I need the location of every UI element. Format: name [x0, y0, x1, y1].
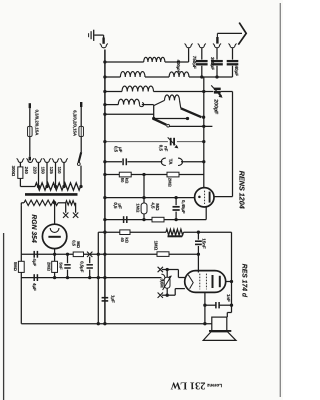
label 0,6M: [159, 279, 164, 289]
junction trim railA: [202, 140, 205, 143]
tap hook 300: [17, 158, 25, 167]
wire screen row: [21, 253, 198, 255]
svg-text:1MΩ: 1MΩ: [154, 241, 159, 251]
junction res bus: [103, 173, 106, 176]
wire row2: [105, 76, 121, 78]
socket hook A2: [198, 44, 206, 48]
label RENS 1204: [238, 171, 247, 209]
junction TA bus: [103, 160, 106, 163]
hum resistor: [66, 201, 76, 205]
tap hook 125: [52, 158, 60, 186]
wire 1nF row: [205, 304, 232, 306]
wire grid row: [105, 197, 195, 199]
socket hook A4: [228, 44, 236, 48]
coil L4b lead left: [154, 100, 165, 105]
tube RGN anode leg: [54, 249, 56, 255]
svg-text:40: 40: [120, 237, 125, 242]
label 0,5M: [71, 240, 81, 248]
left rail top: [20, 205, 22, 261]
junction link left: [152, 117, 155, 120]
jack TA right: [178, 158, 183, 165]
junction anode bus: [103, 231, 106, 234]
junction cath bottom: [203, 322, 206, 325]
svg-text:1MΩ: 1MΩ: [136, 203, 141, 213]
tube1 cathode leg: [205, 207, 207, 220]
socket hook A3: [213, 44, 221, 48]
switch post: [153, 105, 155, 119]
svg-text:0,6M: 0,6M: [159, 279, 164, 289]
label RES 174d: [241, 264, 248, 298]
label 2M vert: [46, 262, 51, 272]
svg-text:125: 125: [49, 167, 54, 175]
junction row2 300pF: [215, 75, 218, 78]
wire fil top: [54, 203, 56, 225]
switch contact S2: [167, 124, 170, 127]
svg-text:240: 240: [24, 167, 29, 175]
svg-text:50: 50: [120, 178, 125, 183]
wire heater row: [21, 203, 65, 206]
junction grid cap: [174, 196, 177, 199]
capacitor 15nF: [195, 241, 202, 244]
svg-text:kΩ: kΩ: [124, 237, 129, 243]
label 400μH: [176, 60, 181, 73]
wire hook A2 down: [201, 48, 203, 59]
junction heater fil: [53, 201, 56, 204]
label 4,5M: [150, 202, 160, 211]
label 1M: [136, 203, 141, 213]
mains pin2: [80, 102, 82, 126]
capacitor 300pF: [211, 61, 223, 77]
junction bias rail98: [97, 276, 100, 279]
mains switch contact: [77, 163, 80, 166]
capacitor 0,5uF bias: [87, 257, 93, 278]
svg-text:4μF: 4μF: [32, 258, 37, 266]
wire hook A4 down: [232, 48, 234, 59]
resistor 2M box2: [167, 172, 179, 177]
svg-text:400μH: 400μH: [176, 60, 181, 73]
junction g2 5nF: [66, 253, 69, 256]
tap hook 150: [43, 158, 51, 186]
wire 1M to cath: [143, 214, 145, 220]
label 300: [11, 166, 16, 177]
wire TA row: [105, 161, 162, 163]
svg-text:0,45μF: 0,45μF: [181, 200, 186, 214]
resistor 50k box1: [119, 172, 131, 177]
svg-text:0,5: 0,5: [71, 240, 76, 246]
dropper zigzag: [35, 183, 81, 190]
wire railD to trafo: [227, 305, 231, 317]
svg-text:μF: μF: [117, 203, 122, 209]
resistor 5M box: [18, 261, 24, 272]
label 200pF: [213, 99, 219, 114]
svg-text:nF: nF: [164, 146, 169, 152]
wire row3: [105, 91, 122, 93]
junction cath bus: [103, 218, 106, 221]
coil L4a end curl: [140, 103, 144, 107]
label 150: [41, 167, 46, 175]
label TA: [167, 159, 173, 166]
wire switch to zigzag: [80, 166, 82, 187]
label 15nF: [202, 238, 207, 249]
tap hook 240: [26, 158, 34, 162]
svg-text:0,3/0,2/0,15A: 0,3/0,2/0,15A: [35, 110, 40, 136]
bias wire end curl: [161, 274, 165, 281]
wire row4 right: [142, 104, 154, 106]
fuse F1: [28, 126, 33, 136]
heater winding zigzag: [24, 200, 58, 205]
resistor 1M box g2: [157, 252, 169, 257]
svg-text:0,5: 0,5: [159, 145, 164, 152]
capacitor 5nF: [64, 254, 70, 277]
speaker cone: [203, 332, 236, 341]
coil L2a: [120, 72, 145, 77]
tube1 anode wire: [214, 196, 233, 198]
title 231LW: [170, 380, 205, 391]
speaker flange: [209, 330, 231, 332]
svg-text:5MΩ: 5MΩ: [13, 262, 18, 272]
wire cathode row: [105, 219, 206, 221]
label 4uF bottom: [32, 283, 37, 291]
svg-text:4μF: 4μF: [32, 283, 37, 291]
socket hook bus top: [100, 44, 108, 48]
title Lorenz: [206, 383, 222, 388]
left rail bottom: [20, 272, 22, 323]
junction bias bus: [103, 276, 106, 279]
resistor 300 box: [18, 167, 23, 179]
wire hook A3 down: [216, 48, 218, 59]
label 0,5uF cath: [113, 202, 123, 209]
jack TA left: [161, 158, 166, 165]
junction cath 1nF: [203, 304, 206, 307]
label 300pF: [210, 57, 215, 70]
junction row2 bus: [103, 75, 106, 78]
tube RENS1204: [195, 188, 214, 207]
svg-text:RGN 354: RGN 354: [30, 214, 37, 243]
junction bus bottom: [103, 322, 106, 325]
label 40k: [120, 237, 130, 243]
heater X mid: [87, 252, 92, 257]
coil L4b lead right: [180, 100, 181, 108]
heater X g top: [158, 267, 168, 272]
hum stub left: [63, 203, 68, 218]
junction Xbottom: [166, 294, 169, 297]
wire 1M drop: [143, 175, 145, 204]
plug pin 240: [29, 157, 31, 161]
label 125: [49, 167, 54, 175]
junction g2 rail98: [97, 253, 100, 256]
wire bus to switch: [105, 113, 154, 115]
border left: [3, 233, 5, 400]
trimmer 0,5nF: [168, 137, 179, 148]
wire Xtop to tube: [167, 270, 185, 278]
junction bus sw: [103, 113, 106, 116]
capacitor 0,5uF cath: [124, 216, 127, 223]
svg-text:2MΩ: 2MΩ: [46, 262, 51, 272]
svg-text:0,5μF: 0,5μF: [79, 261, 84, 273]
label 0,5uF TA: [114, 146, 124, 153]
capacitor 0,5uF TA: [123, 158, 126, 165]
coil L2b: [169, 72, 189, 77]
junction row3 bus: [103, 90, 106, 93]
label 5M: [13, 262, 18, 272]
capacitor 1uF: [102, 298, 109, 301]
label 2M: [168, 178, 173, 188]
svg-text:15nF: 15nF: [202, 238, 207, 249]
socket hook A1: [185, 44, 193, 48]
wire TA to railA: [181, 161, 204, 163]
rail B vertical: [232, 92, 234, 197]
junction trim bus: [103, 140, 106, 143]
svg-text:6,3/0,2/0,15A: 6,3/0,2/0,15A: [73, 110, 78, 136]
resistor 4,5M box: [152, 217, 164, 222]
svg-text:2MΩ: 2MΩ: [168, 178, 173, 188]
capacitor 40pF: [227, 61, 239, 77]
junction tap220: [37, 185, 40, 188]
fuse F2: [79, 126, 84, 136]
tap hook 220: [35, 158, 43, 186]
junction anode railC: [197, 231, 200, 234]
junction link right: [186, 117, 189, 120]
junction S2 railA: [202, 125, 205, 128]
junction dropper right: [79, 185, 82, 188]
wire S2 to railA: [170, 125, 213, 127]
pot connections: [166, 270, 168, 296]
junction grid 1M: [142, 196, 145, 199]
junction row4 bus: [103, 103, 106, 106]
wire switch link: [154, 118, 188, 120]
svg-text:4,5: 4,5: [150, 202, 155, 209]
hum stub right: [73, 203, 78, 218]
junction tap110: [62, 185, 65, 188]
junction bias 5nF: [66, 276, 69, 279]
bus main vertical: [104, 50, 106, 324]
capacitor 0,45uF: [173, 198, 180, 220]
junction bias 2M: [53, 276, 56, 279]
wire F2 down: [80, 137, 82, 153]
label 0,5uF bias: [79, 261, 84, 273]
plug pin into bus socket: [102, 38, 104, 44]
coil L1: [144, 57, 165, 62]
mains switch arm: [79, 152, 82, 162]
junction cath 1M: [142, 218, 145, 221]
wire row1 to hook: [165, 61, 189, 63]
wire res row: [105, 174, 204, 176]
wire tube2 anode: [226, 281, 232, 283]
wire row1: [105, 61, 144, 63]
svg-text:TA: TA: [167, 159, 173, 166]
pot 0,6M: [163, 276, 172, 290]
tube RES174d: [185, 271, 226, 293]
junction rail98 bottom: [97, 322, 100, 325]
capacitor 4uF top: [34, 251, 37, 258]
junction TA railA: [202, 160, 205, 163]
border right: [279, 3, 281, 397]
junction tap125: [54, 185, 57, 188]
label 1M g2: [154, 241, 159, 251]
junction tap150: [45, 185, 48, 188]
label 40pF: [234, 66, 239, 77]
svg-text:RENS 1204: RENS 1204: [238, 171, 247, 209]
switch arm S2: [154, 119, 167, 125]
junction g2 bus: [103, 253, 106, 256]
svg-text:5nF: 5nF: [59, 262, 64, 270]
wire ground to bus: [94, 35, 103, 37]
coil L3: [122, 86, 154, 91]
junction Xtop: [166, 268, 169, 271]
svg-text:kΩ: kΩ: [125, 178, 130, 184]
wire Xbottom to tube: [167, 289, 185, 296]
wire row2 mid: [145, 76, 169, 78]
bottom rail: [21, 323, 212, 325]
wire hook A1 down: [188, 48, 190, 62]
choke zigzag: [166, 229, 184, 235]
junction grid bus: [103, 196, 106, 199]
wire row2 right: [189, 76, 233, 78]
resistor 40k box: [120, 230, 130, 235]
svg-text:231 LW: 231 LW: [170, 380, 205, 391]
junction bias 05uF: [88, 276, 91, 279]
svg-text:0,5: 0,5: [114, 146, 119, 153]
svg-text:220: 220: [32, 167, 37, 175]
junction res mid: [142, 173, 145, 176]
svg-text:Lorenz: Lorenz: [206, 383, 222, 388]
svg-text:40pF: 40pF: [234, 66, 239, 77]
capacitor 4uF bottom: [34, 274, 37, 281]
junction cath cap: [174, 218, 177, 221]
speaker magnet: [212, 317, 227, 331]
label 5nF: [59, 262, 64, 270]
junction railC g2row: [197, 253, 200, 256]
junction S1 railA: [202, 116, 205, 119]
tap hook 110: [60, 158, 68, 186]
label F1: [35, 110, 40, 136]
svg-text:MΩ: MΩ: [76, 241, 81, 248]
antenna plug pin: [216, 33, 218, 43]
rail C vertical: [197, 232, 199, 272]
wire bias row: [21, 277, 161, 279]
label 750pF: [192, 56, 197, 69]
wire row3 right: [154, 91, 214, 93]
svg-text:300Ω: 300Ω: [11, 166, 16, 177]
resistor 2M vert: [52, 254, 58, 277]
label 0,45uF: [181, 200, 186, 214]
junction row1: [103, 60, 106, 63]
resistor 1M box: [141, 203, 147, 214]
svg-text:0,5: 0,5: [113, 202, 118, 209]
rail98 top corner: [97, 232, 99, 324]
label RGN 354: [30, 214, 37, 243]
switch arm S1: [181, 108, 202, 117]
wire F1 down: [29, 137, 31, 157]
trimmer 200pF: [211, 85, 232, 97]
label 50k: [120, 178, 130, 184]
capacitor 750pF: [196, 61, 208, 77]
svg-text:300pF: 300pF: [210, 57, 215, 70]
heater X g bottom: [158, 293, 168, 298]
resistor 0,5M box: [73, 252, 83, 257]
label 1nF: [226, 294, 231, 302]
wire 300 down: [20, 178, 35, 186]
label 4uF top: [32, 258, 37, 266]
svg-text:200pF: 200pF: [213, 99, 219, 114]
wire anode row: [98, 231, 231, 233]
svg-text:1nF: 1nF: [226, 294, 231, 302]
ground: [89, 30, 94, 41]
label 110: [57, 167, 62, 175]
label F2: [73, 110, 78, 136]
coil L4a: [118, 99, 139, 104]
junction row2 railA: [200, 75, 203, 78]
wire trimmer row: [105, 141, 204, 143]
tube2 cathode leg: [204, 292, 206, 323]
mains pin1: [29, 103, 31, 126]
svg-text:RES 174 d: RES 174 d: [241, 264, 248, 298]
junction g2 2M: [53, 253, 56, 256]
rail D vertical: [231, 232, 233, 305]
choke bar: [168, 235, 183, 237]
capacitor 1nF: [216, 302, 219, 308]
label 220: [32, 167, 37, 175]
svg-text:150: 150: [41, 167, 46, 175]
svg-text:1μF: 1μF: [110, 295, 115, 303]
antenna arrow: [217, 23, 246, 45]
rail A vertical: [203, 77, 205, 188]
svg-text:110: 110: [57, 167, 62, 175]
svg-text:μF: μF: [118, 147, 123, 153]
junction anode railD: [230, 280, 233, 283]
dropper bar: [25, 193, 78, 196]
label 0,5nF: [159, 145, 169, 152]
svg-text:MΩ: MΩ: [155, 203, 160, 211]
label 1uF: [110, 295, 115, 303]
svg-text:750pF: 750pF: [192, 56, 197, 69]
coil L4b: [165, 95, 180, 100]
wire row4: [105, 104, 118, 106]
label 240: [24, 167, 29, 175]
tube RGN354: [42, 224, 66, 248]
junction 1nF railD: [230, 304, 233, 307]
junction row3 railA: [202, 90, 205, 93]
